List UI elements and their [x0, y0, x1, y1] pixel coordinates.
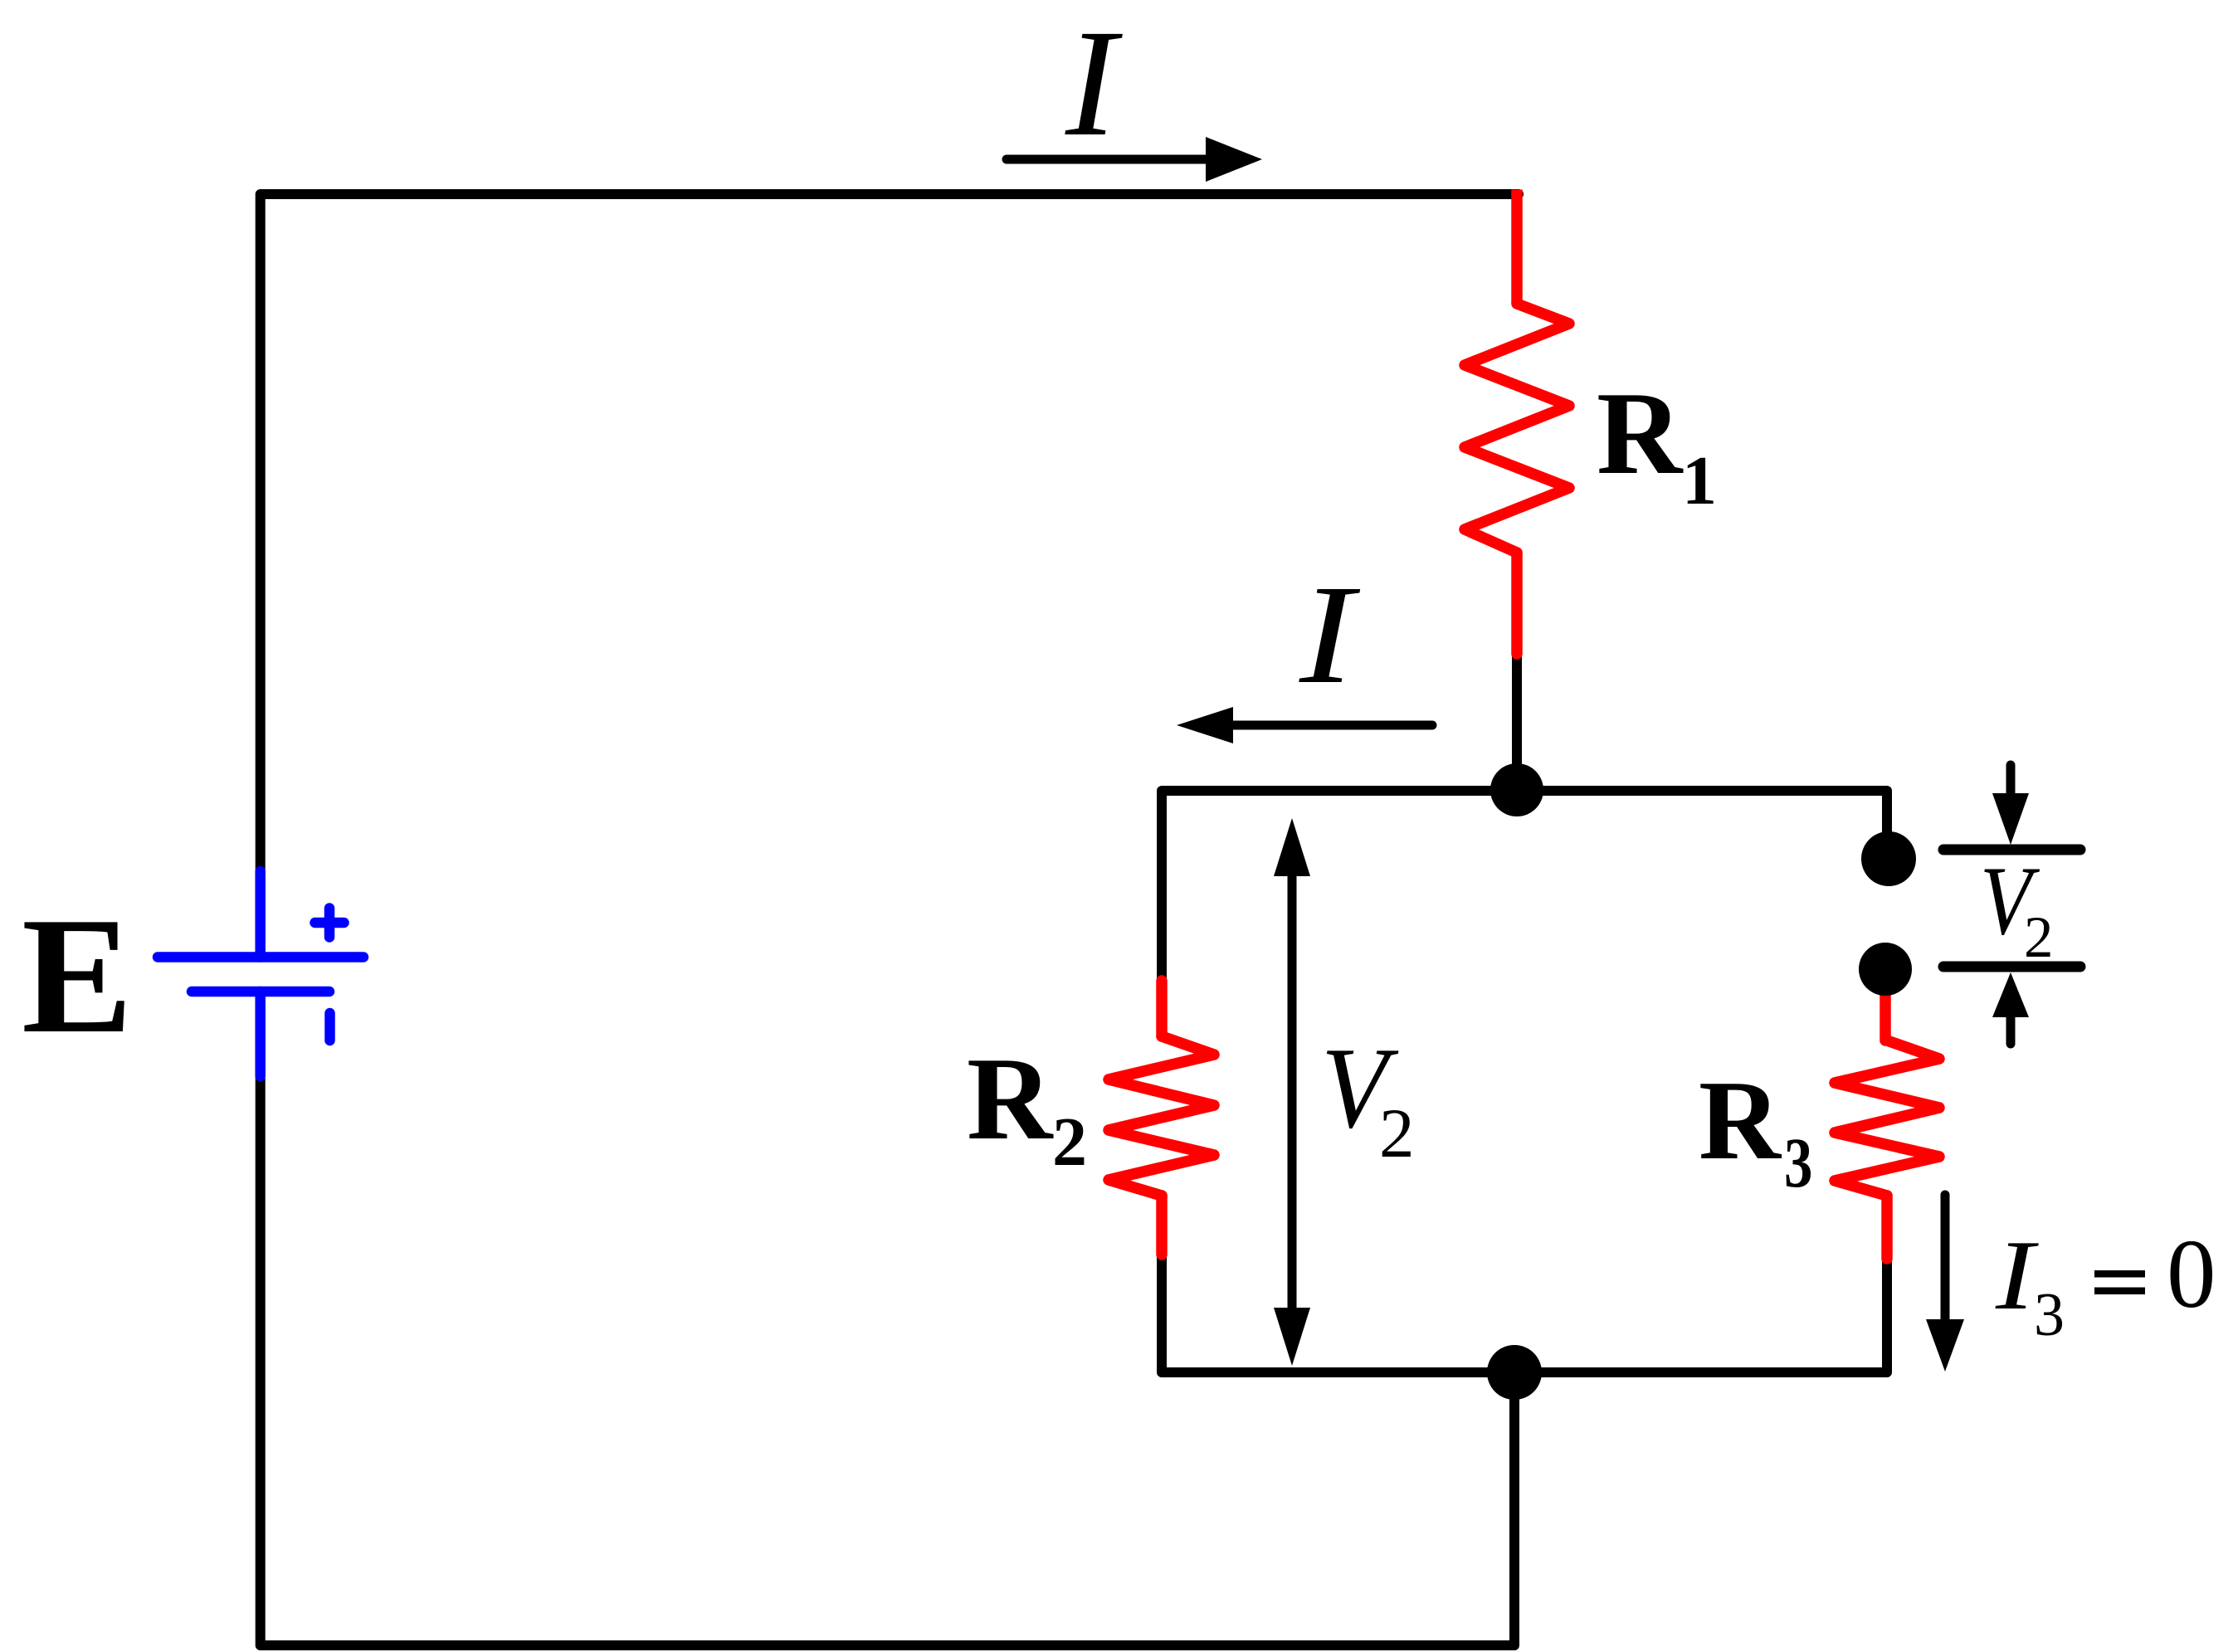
svg-text:R: R: [967, 1033, 1054, 1164]
svg-text:R: R: [1597, 368, 1684, 499]
svg-text:E: E: [22, 884, 133, 1068]
svg-text:I: I: [1299, 556, 1361, 713]
svg-text:R: R: [1699, 1057, 1782, 1183]
svg-text:I: I: [1995, 1221, 2040, 1331]
svg-text:3: 3: [1784, 1123, 1812, 1202]
svg-text:2: 2: [2024, 905, 2054, 970]
svg-text:2: 2: [1052, 1104, 1087, 1181]
svg-text:I: I: [1065, 0, 1123, 168]
svg-text:3: 3: [2034, 1281, 2065, 1349]
svg-text:1: 1: [1682, 442, 1717, 519]
svg-text:0: 0: [2167, 1219, 2216, 1328]
svg-text:2: 2: [1379, 1094, 1415, 1172]
